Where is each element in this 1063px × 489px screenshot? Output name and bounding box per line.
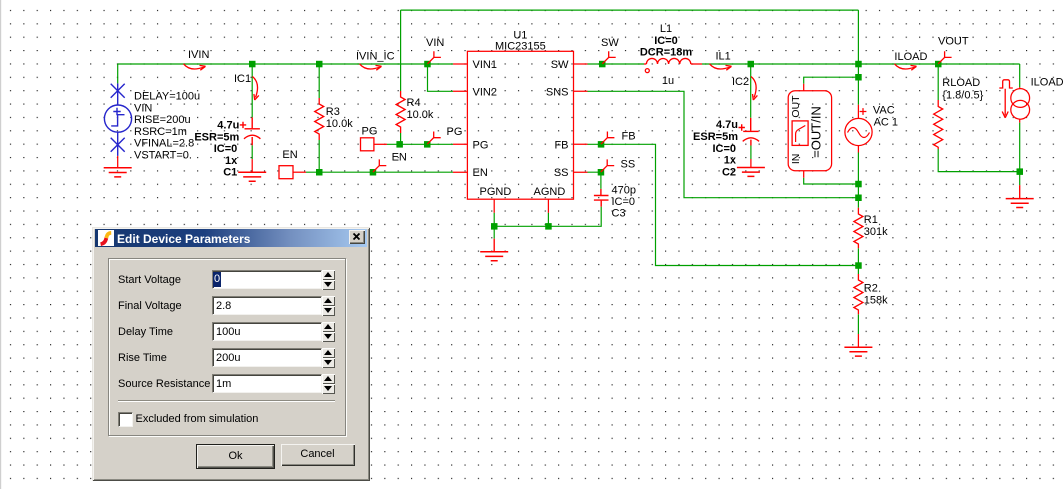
svg-text:R2: R2 <box>864 282 878 294</box>
node R3-EN <box>316 169 323 176</box>
wire C3 bottom to AGND rail <box>494 207 601 227</box>
text C3 values <box>612 185 636 220</box>
current probe ILOAD <box>895 64 917 70</box>
dialog close button <box>349 230 365 244</box>
svg-text:IN: IN <box>790 154 802 165</box>
current probe IVIN_IC <box>360 64 382 70</box>
wire top VOUT feedback rail <box>401 9 859 11</box>
svg-text:470p: 470p <box>612 185 636 197</box>
svg-text:IC2: IC2 <box>732 76 749 88</box>
text VAC <box>873 104 898 128</box>
node FB divider tap <box>855 262 862 269</box>
wire top rail right drop <box>857 10 859 64</box>
svg-text:4.7u: 4.7u <box>716 119 738 131</box>
svg-text:IC1: IC1 <box>234 73 251 85</box>
dialog row Start Voltage <box>118 274 181 286</box>
wire SW to output rail <box>588 63 1020 65</box>
probe block U2 =OUT/IN <box>788 84 831 178</box>
svg-text:OUT: OUT <box>790 95 802 118</box>
node VOUT rail drop <box>855 61 862 68</box>
node RLOAD bottom <box>1017 168 1024 175</box>
current probe IC1 <box>252 77 258 101</box>
capacitor C3 470p <box>594 189 609 207</box>
net label VIN <box>426 37 444 64</box>
net label SW <box>601 37 619 64</box>
net label VOUT <box>938 35 969 64</box>
text R2 <box>864 282 888 306</box>
wire R3 branch <box>318 64 320 172</box>
svg-text:10.0k: 10.0k <box>407 109 434 121</box>
node C2 tap <box>748 61 755 68</box>
source VAC AC 1 <box>845 105 872 153</box>
net label FB <box>601 131 636 145</box>
current probe IC2 <box>751 77 757 101</box>
svg-text:ESR=5m: ESR=5m <box>194 131 239 143</box>
text R3 <box>326 106 353 130</box>
U1 pin stubs right <box>574 64 588 172</box>
svg-text:R4: R4 <box>407 97 421 109</box>
wire ILOAD source column <box>1019 64 1021 185</box>
text C1 values <box>194 120 239 179</box>
svg-text:SW: SW <box>551 59 569 71</box>
wire SS to C3 <box>588 172 601 189</box>
wire R1-R2 link <box>857 248 859 274</box>
svg-text:RISE=200u: RISE=200u <box>134 114 191 126</box>
wire C1 to ground <box>251 159 253 172</box>
svg-text:FB: FB <box>554 139 568 151</box>
svg-text:IL1: IL1 <box>716 50 731 62</box>
wire top rail left drop to R4 <box>400 10 402 91</box>
svg-text:PG: PG <box>473 139 489 151</box>
svg-text:ESR=5m: ESR=5m <box>693 131 738 143</box>
dialog separator <box>118 400 335 402</box>
current source ILOAD <box>999 80 1029 123</box>
svg-text:EN: EN <box>282 149 297 161</box>
dialog icon SIMetrix logo <box>98 230 114 246</box>
svg-text:C1: C1 <box>223 167 237 179</box>
svg-text:IC=0: IC=0 <box>654 35 678 47</box>
svg-text:158k: 158k <box>864 294 888 306</box>
svg-text:PG: PG <box>447 126 463 138</box>
op-amp U1 MIC23155 body <box>467 30 573 200</box>
terminal PG <box>361 126 388 151</box>
wire AGND drop <box>547 213 549 227</box>
svg-text:1x: 1x <box>225 155 238 167</box>
wire VIN source to ground <box>117 156 119 168</box>
net label PG <box>427 126 462 144</box>
text U1 pin names <box>473 59 570 198</box>
text C2 values <box>693 119 738 178</box>
ground below C2 <box>737 168 765 177</box>
dialog Edit Device Parameters <box>92 227 370 481</box>
wire EN net <box>306 171 453 173</box>
svg-text:=OUT/IN: =OUT/IN <box>809 106 824 158</box>
svg-text:PGND: PGND <box>480 186 512 198</box>
node SW label <box>599 61 606 68</box>
wire C2 to ground <box>750 159 752 168</box>
svg-text:VIN: VIN <box>426 37 444 49</box>
ground below R2 <box>844 347 872 356</box>
svg-text:FB: FB <box>622 131 636 143</box>
U1 pin stubs bottom PGND AGND <box>494 199 548 213</box>
U1 pin stubs left <box>453 64 467 172</box>
svg-text:VIN1: VIN1 <box>473 59 497 71</box>
wire OUT probe pin <box>804 77 859 84</box>
wire PG net <box>387 143 453 145</box>
net label SS <box>601 159 635 173</box>
capacitor C2 4.7u <box>739 118 760 146</box>
svg-text:L1: L1 <box>660 23 672 35</box>
svg-text:C3: C3 <box>612 208 626 220</box>
resistor RLOAD <box>934 100 943 149</box>
svg-text:RSRC=1m: RSRC=1m <box>134 126 187 138</box>
resistor R4 10.0k <box>396 91 405 133</box>
terminal EN <box>279 149 306 179</box>
voltage source V1 VIN <box>104 83 131 155</box>
node VIN label <box>424 61 431 68</box>
node AGND <box>545 223 552 230</box>
svg-text:AGND: AGND <box>534 186 566 198</box>
svg-text:MIC23155: MIC23155 <box>495 41 546 53</box>
net label EN <box>373 151 407 172</box>
ground below VIN <box>104 168 132 177</box>
svg-text:{1.8/0.5}: {1.8/0.5} <box>942 89 983 101</box>
current probe IVIN <box>184 64 206 70</box>
svg-text:IVIN_IC: IVIN_IC <box>356 51 395 63</box>
svg-text:VAC: VAC <box>873 104 895 116</box>
svg-text:IC=0: IC=0 <box>712 143 736 155</box>
svg-text:IC=0: IC=0 <box>214 143 238 155</box>
ground below C1 <box>238 172 266 181</box>
wire IN probe pin <box>804 178 859 184</box>
svg-text:VIN: VIN <box>134 102 152 114</box>
svg-text:EN: EN <box>392 151 407 163</box>
ground below PGND <box>480 239 508 261</box>
wire RLOAD branch <box>938 64 1020 172</box>
svg-text:PG: PG <box>362 126 378 138</box>
svg-text:SNS: SNS <box>546 86 569 98</box>
svg-text:EN: EN <box>473 167 488 179</box>
resistor R1 301k <box>854 208 863 249</box>
svg-text:SW: SW <box>601 37 619 49</box>
svg-text:301k: 301k <box>864 226 888 238</box>
node PGND <box>491 223 498 230</box>
node R3 tap <box>316 61 323 68</box>
text VIN source parameters <box>134 91 200 162</box>
dialog row Final Voltage <box>118 300 182 312</box>
wire PGND drop <box>493 213 495 239</box>
svg-text:DCR=18m: DCR=18m <box>640 47 692 59</box>
svg-text:DELAY=100u: DELAY=100u <box>134 91 200 103</box>
app window left edge <box>0 0 1 489</box>
svg-text:IC=0: IC=0 <box>612 196 636 208</box>
dialog group box <box>108 258 346 436</box>
svg-text:VOUT: VOUT <box>938 35 969 47</box>
text R4 <box>407 97 434 121</box>
wire main VIN rail <box>118 63 453 65</box>
node R4-PG <box>396 141 403 148</box>
resistor R3 10.0k <box>315 98 324 140</box>
wire C1 branch <box>251 64 253 159</box>
node EN label <box>370 169 377 176</box>
text L1 values <box>640 23 692 87</box>
capacitor C1 4.7u <box>240 117 261 145</box>
svg-text:R1: R1 <box>864 214 878 226</box>
node FB label <box>598 141 605 148</box>
node PG label <box>424 141 431 148</box>
svg-text:ILOAD: ILOAD <box>894 51 927 63</box>
svg-text:ILOAD: ILOAD <box>1031 76 1063 88</box>
inductor L1 <box>644 58 702 72</box>
resistor R2 158k <box>854 274 863 314</box>
wire C2 branch <box>750 64 752 159</box>
dialog row Delay Time <box>118 326 173 338</box>
spinner 1 <box>322 270 335 280</box>
text RLOAD <box>942 77 983 101</box>
dialog button Ok <box>196 444 275 469</box>
dialog title bar <box>95 229 367 247</box>
svg-text:SS: SS <box>621 159 636 171</box>
svg-text:IVIN: IVIN <box>188 49 209 61</box>
node OUT probe tap <box>855 74 862 81</box>
wire VIN2 branch <box>428 64 454 91</box>
current probe IL1 <box>710 64 732 70</box>
dialog row Source Resistance <box>118 378 210 390</box>
dialog row Rise Time <box>118 352 167 364</box>
svg-text:10.0k: 10.0k <box>326 118 353 130</box>
wire R2 to ground <box>857 334 859 347</box>
svg-text:VSTART=0.: VSTART=0. <box>134 150 192 162</box>
text R1 <box>864 214 888 238</box>
dialog title text <box>117 232 250 246</box>
node IN probe tap <box>855 181 862 188</box>
wire R2 to ground <box>857 314 859 334</box>
svg-text:VFINAL=2.8: VFINAL=2.8 <box>134 138 194 150</box>
node VOUT label <box>935 61 942 68</box>
node SNS tap <box>855 195 862 202</box>
svg-text:RLOAD: RLOAD <box>942 77 980 89</box>
svg-text:1x: 1x <box>724 155 737 167</box>
wire R4 bottom to PG net <box>400 133 402 144</box>
svg-text:R3: R3 <box>326 106 340 118</box>
svg-text:1u: 1u <box>662 75 674 87</box>
wire VIN source top <box>117 64 119 83</box>
ground below ILOAD <box>1006 185 1034 207</box>
node C1 tap <box>249 61 256 68</box>
dialog checkbox Excluded from simulation <box>118 412 133 427</box>
svg-text:C2: C2 <box>722 166 736 178</box>
wire VAC branch <box>857 64 859 208</box>
svg-text:SS: SS <box>554 167 569 179</box>
svg-text:AC 1: AC 1 <box>874 117 898 129</box>
svg-text:VIN2: VIN2 <box>473 86 497 98</box>
wire SNS route <box>588 91 859 197</box>
dialog button Cancel <box>281 444 355 466</box>
svg-text:4.7u: 4.7u <box>217 120 239 132</box>
node SS label <box>598 169 605 176</box>
wire FB route <box>588 144 859 265</box>
